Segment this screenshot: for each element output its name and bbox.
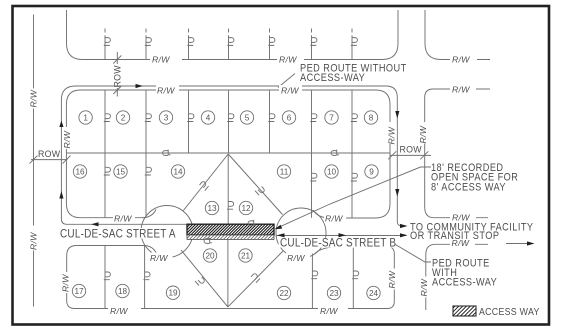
PL symbol tick 7 xyxy=(351,38,358,46)
svg-text:20: 20 xyxy=(205,252,215,261)
to community facility arrow line xyxy=(506,243,531,245)
svg-text:22: 22 xyxy=(279,289,289,298)
PL symbols xyxy=(104,38,359,286)
svg-text:9: 9 xyxy=(369,168,374,177)
svg-text:6: 6 xyxy=(287,114,292,123)
lot 23 circle xyxy=(327,286,340,299)
svg-text:ROW: ROW xyxy=(113,65,123,88)
svg-text:R/W: R/W xyxy=(387,126,397,144)
upper diamond right diagonal xyxy=(228,154,282,215)
svg-text:R/W: R/W xyxy=(281,86,299,96)
leader line 18' open space to access way xyxy=(277,167,432,228)
svg-text:R/W: R/W xyxy=(150,253,168,263)
svg-text:15: 15 xyxy=(116,168,126,177)
svg-text:12: 12 xyxy=(241,204,251,213)
lot 16 circle xyxy=(73,165,86,178)
right street NE corner to street B north edge east xyxy=(425,207,488,218)
svg-text:R/W: R/W xyxy=(287,253,305,263)
lot 6 circle xyxy=(282,111,295,124)
lot line 16|15 xyxy=(104,153,106,218)
arrow street B centerline mid right xyxy=(339,233,347,237)
access way hatched strip main band xyxy=(187,224,274,239)
svg-text:3: 3 xyxy=(164,114,169,123)
phantom lot tick 2 xyxy=(145,29,147,60)
arrow street B centerline left end xyxy=(277,233,285,237)
leader line ped route without xyxy=(278,74,295,88)
top street upper R/W line xyxy=(83,10,399,60)
PL symbol lot line 16|15 xyxy=(104,167,111,175)
top street lower R/W right segment xyxy=(425,89,490,207)
arrow ped route left street up 2 xyxy=(59,191,63,199)
ROW dim top-left slash at lower R/W xyxy=(113,86,121,94)
svg-text:ACCESS-WAY: ACCESS-WAY xyxy=(432,277,497,289)
lot line 5|6 xyxy=(269,90,271,153)
PL symbol tick 1 xyxy=(104,38,111,46)
left street right edge above top street (corner to upper R/W) xyxy=(67,10,83,60)
ROW dim left slash east xyxy=(63,156,71,164)
svg-text:R/W: R/W xyxy=(452,85,470,95)
svg-text:OR TRANSIT STOP: OR TRANSIT STOP xyxy=(410,230,499,242)
phantom lot tick 1 across top street xyxy=(104,29,106,60)
cul-de-sac A bulb circle xyxy=(141,206,193,258)
leader line ped route with xyxy=(386,239,431,262)
ped route north leg and east leg xyxy=(76,86,407,226)
CL symbol on mid line right xyxy=(331,150,339,156)
PL rotated on lower diamond left diagonal xyxy=(195,276,205,286)
lot 19 circle xyxy=(166,286,179,299)
svg-text:10: 10 xyxy=(327,168,337,177)
PL symbol tick 2 xyxy=(145,38,152,46)
lot 20 circle xyxy=(203,249,216,262)
arrow ped route left street up 1 xyxy=(59,121,63,128)
PL rotated on upper diamond right diagonal xyxy=(255,186,265,196)
PL symbol tick 5 xyxy=(268,38,275,46)
lower diamond center lot line xyxy=(227,239,229,307)
lower diamond left diagonal xyxy=(181,250,228,307)
svg-text:CUL-DE-SAC STREET A: CUL-DE-SAC STREET A xyxy=(60,228,176,241)
lot 12 circle xyxy=(239,201,252,214)
svg-text:R/W: R/W xyxy=(452,55,470,65)
phantom lot tick 3 xyxy=(188,29,190,60)
ped route street B centerline xyxy=(276,235,406,237)
svg-text:CUL-DE-SAC STREET B: CUL-DE-SAC STREET B xyxy=(280,237,396,250)
lot 18 circle xyxy=(116,284,129,297)
CL symbol on mid line left xyxy=(163,150,171,156)
arrow ped route left street A pointing left xyxy=(91,222,99,226)
lot 24 circle xyxy=(367,286,380,299)
lot 5 circle xyxy=(240,111,253,124)
cul-de-sac B bulb circle xyxy=(276,208,326,258)
PL rotated on lower diamond right diagonal xyxy=(250,273,260,283)
access way strip lower band xyxy=(187,235,274,239)
svg-text:18: 18 xyxy=(118,287,128,296)
svg-text:R/W: R/W xyxy=(110,306,128,316)
PL symbol lot line 6|7 xyxy=(310,114,317,122)
svg-text:R/W: R/W xyxy=(157,86,175,96)
arrow ped route top pointing right xyxy=(136,84,144,88)
lot 10 circle xyxy=(325,165,338,178)
PL symbol lot line 17|18 xyxy=(104,272,111,280)
arrow ped route right street down 1 xyxy=(395,111,399,119)
lot line 6|7 xyxy=(311,90,313,153)
ROW dim right slash west xyxy=(388,151,396,159)
lot 4 circle xyxy=(201,111,214,124)
phantom lot tick 5 xyxy=(269,29,271,60)
lot 13 circle xyxy=(205,201,218,214)
PL symbol lot line 10|9 xyxy=(351,173,358,181)
PL symbol lot line 5|6 xyxy=(268,114,275,122)
lot circles xyxy=(72,111,380,300)
svg-text:R/W: R/W xyxy=(279,55,297,65)
ROW dim right slash east xyxy=(420,151,428,159)
PL symbol lot line 18|19 xyxy=(143,272,150,280)
lot 17 circle xyxy=(72,284,85,297)
main block rounded boundary xyxy=(81,90,391,218)
svg-text:23: 23 xyxy=(329,289,339,298)
ROW dim right street line xyxy=(390,154,431,156)
bottom-left block top edge xyxy=(77,245,145,247)
svg-text:1: 1 xyxy=(83,114,88,123)
svg-text:4: 4 xyxy=(206,114,211,123)
lot 2 circle xyxy=(116,111,129,124)
arrow ped route east end right xyxy=(400,224,408,228)
svg-text:21: 21 xyxy=(241,252,251,261)
lot 22 circle xyxy=(277,286,290,299)
upper diamond center lot line xyxy=(227,154,229,224)
ROW dim left street line xyxy=(31,159,68,161)
street B SE corner / south edge east xyxy=(426,244,488,310)
bottom-left block boundary xyxy=(67,246,388,309)
lot 21 circle xyxy=(239,249,252,262)
lot line 7|8 xyxy=(351,90,353,153)
arrow ped route right street down 2 xyxy=(395,189,399,197)
lot line 15|14 xyxy=(145,153,147,218)
svg-text:14: 14 xyxy=(173,168,183,177)
svg-text:2: 2 xyxy=(121,114,126,123)
lot line 11|10 xyxy=(311,153,313,218)
PL symbol lot line 11|10 xyxy=(310,173,317,181)
PL rotated on upper diamond left diagonal xyxy=(199,181,209,191)
PL symbol lot line 2|3 xyxy=(145,114,152,122)
svg-text:7: 7 xyxy=(329,114,334,123)
cul-de-sac A lower flare xyxy=(145,246,157,254)
lot 7 circle xyxy=(325,111,338,124)
arrows xyxy=(59,84,534,246)
svg-text:24: 24 xyxy=(369,289,379,298)
top street upper R/W right of vertical street xyxy=(425,10,490,60)
arrow 18' leader at access way xyxy=(275,225,283,230)
lot line 1|2 xyxy=(104,90,106,153)
lot 15 circle xyxy=(114,165,127,178)
PL symbol lot line 13|12 xyxy=(227,202,234,210)
svg-text:8: 8 xyxy=(369,114,374,123)
svg-text:8' ACCESS WAY: 8' ACCESS WAY xyxy=(431,182,506,194)
PL symbol tick 4 xyxy=(227,38,234,46)
PL symbol tick 6 xyxy=(310,38,317,46)
cul-de-sac A upper flare xyxy=(142,210,156,218)
svg-text:R/W: R/W xyxy=(29,232,39,250)
arrow street B east end right xyxy=(400,233,408,237)
svg-text:R/W: R/W xyxy=(325,214,343,224)
lot 9 circle xyxy=(365,165,378,178)
ROW dim top-left slash at upper R/W xyxy=(113,56,121,64)
lot 14 circle xyxy=(171,165,184,178)
svg-text:5: 5 xyxy=(245,114,250,123)
svg-text:R/W: R/W xyxy=(320,306,338,316)
main block left/bottom boundary xyxy=(66,90,142,218)
svg-text:ACCESS-WAY: ACCESS-WAY xyxy=(300,72,365,84)
phantom lot tick 4 xyxy=(228,29,230,60)
lot line 4|5 xyxy=(228,90,230,153)
CL symbol below strip left xyxy=(204,238,212,244)
lot 8 circle xyxy=(364,111,377,124)
CL symbol on strip right xyxy=(248,220,256,226)
svg-text:ACCESS WAY: ACCESS WAY xyxy=(479,306,540,318)
svg-text:R/W: R/W xyxy=(387,270,397,288)
lot line 10|9 xyxy=(351,153,353,218)
lower diamond right diagonal xyxy=(228,251,284,307)
cul-de-sac B upper flare (street B north R/W) xyxy=(313,210,355,218)
svg-text:11: 11 xyxy=(280,168,289,177)
PL symbol tick 3 xyxy=(187,38,194,46)
svg-text:19: 19 xyxy=(168,289,178,298)
PL symbol lot line 4|5 xyxy=(227,114,234,122)
svg-text:R/W: R/W xyxy=(61,274,71,292)
cul-de-sac B lower flare (street B south R/W) xyxy=(314,247,341,255)
svg-text:ROW: ROW xyxy=(38,149,61,159)
ped route west leg xyxy=(61,86,187,224)
ROW dim left slash west xyxy=(30,156,38,164)
lot numbers xyxy=(74,114,378,299)
lot line 2|3 xyxy=(145,90,147,153)
lot 11 circle xyxy=(277,165,290,178)
legend hatched box xyxy=(453,306,476,316)
svg-text:R/W: R/W xyxy=(152,55,170,65)
mid-block lot line (horizontal) xyxy=(66,152,390,154)
lot line 22|23 xyxy=(311,254,313,309)
phantom lot tick 7 xyxy=(351,29,353,60)
lot line 17|18 xyxy=(104,246,106,309)
svg-text:17: 17 xyxy=(74,287,84,296)
svg-text:R/W: R/W xyxy=(419,278,429,296)
lot line 3|4 xyxy=(188,90,190,153)
phantom lot tick 6 xyxy=(311,29,313,60)
svg-text:13: 13 xyxy=(207,204,217,213)
text label backgrounds xyxy=(29,54,477,315)
svg-text:16: 16 xyxy=(75,168,85,177)
lot line 23|24 xyxy=(352,247,354,309)
svg-text:ROW: ROW xyxy=(400,144,423,154)
svg-text:R/W: R/W xyxy=(418,125,428,143)
arrow to community facility xyxy=(527,241,535,245)
lot line 18|19 xyxy=(144,246,146,309)
lot 1 circle xyxy=(79,111,92,124)
svg-text:R/W: R/W xyxy=(62,130,72,148)
svg-text:R/W: R/W xyxy=(114,214,132,224)
lot 3 circle xyxy=(159,111,172,124)
PL symbol lot line 1|2 xyxy=(104,114,111,122)
ROW dim top-left vertical xyxy=(116,52,118,97)
bottom-right block top edge and right edge xyxy=(340,247,394,309)
PL symbol lot line 3|4 xyxy=(187,114,194,122)
PL symbol lot line 15|14 xyxy=(145,167,152,175)
upper diamond left diagonal xyxy=(183,154,228,211)
left R/W line xyxy=(33,15,35,307)
PL symbol lot line 7|8 xyxy=(351,114,358,122)
PL symbol lot line 22|23 xyxy=(311,271,318,279)
PL symbol lot line 23|24 xyxy=(352,271,359,279)
svg-text:R/W: R/W xyxy=(29,89,39,107)
